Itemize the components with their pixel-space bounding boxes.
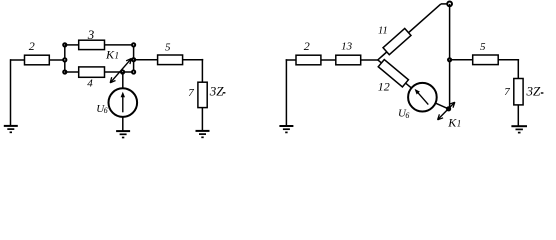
wire mid to R5b [450, 59, 473, 61]
svg-text:5: 5 [480, 41, 486, 53]
label 3 [87, 27, 95, 42]
wire R2 to node [49, 59, 65, 61]
node bus1 bottom [63, 70, 66, 73]
wire diag down [378, 60, 412, 88]
svg-text:3Z: 3Z [526, 83, 542, 98]
wire bus2 [133, 45, 135, 72]
svg-text:2: 2 [304, 39, 310, 53]
wire bus1 [64, 45, 66, 72]
switch K1b blade [438, 102, 455, 120]
node bus2 top [132, 43, 135, 46]
label 11 [378, 25, 388, 36]
wire main left [10, 59, 25, 61]
node bus1 mid [63, 58, 66, 61]
resistor R11 [383, 28, 411, 54]
wire R7 to ground [201, 108, 203, 131]
ground right of left circuit [196, 131, 210, 137]
wire top corner [441, 3, 450, 5]
wire mid to R5 [134, 59, 158, 61]
wire main 2 [286, 59, 296, 61]
resistor R5 [158, 55, 183, 65]
switch K1 blade [110, 59, 131, 83]
ground right 2 [511, 126, 527, 132]
svg-text:2: 2 [29, 39, 35, 53]
svg-text:13: 13 [341, 41, 353, 53]
wire left vertical [10, 59, 12, 126]
resistor R4 [79, 67, 105, 77]
svg-text:K: K [105, 48, 115, 62]
svg-text:K: K [447, 116, 457, 130]
svg-text:3: 3 [87, 27, 95, 42]
wire source to pivot 2 [435, 103, 448, 109]
wire diag up [378, 4, 441, 60]
label 2 [29, 39, 35, 53]
wire bottom branch right [105, 71, 134, 73]
ground under source [116, 131, 130, 137]
resistor R13 [336, 55, 361, 65]
label 7 left [188, 87, 194, 99]
svg-text:11: 11 [378, 25, 388, 36]
label 13 [341, 41, 353, 53]
label 5b [480, 41, 486, 53]
wire source to ground [122, 117, 124, 131]
svg-text:7: 7 [188, 87, 194, 99]
resistor R2b [296, 55, 321, 65]
resistor R2 [25, 55, 50, 65]
label 7b [504, 86, 510, 98]
node bus mid [448, 58, 451, 61]
wire right vertical 2 [517, 59, 519, 79]
label 2b [304, 39, 310, 53]
source U6b arrow [415, 89, 429, 105]
wire R7b to ground [517, 105, 519, 126]
svg-text:3Z: 3Z [209, 83, 225, 98]
label 3Zb [526, 83, 544, 98]
svg-text:5: 5 [165, 42, 171, 54]
source U6b circle [408, 83, 437, 112]
wire bottom branch left [65, 71, 79, 73]
node switch pivot [121, 70, 124, 73]
source U6 circle [109, 88, 138, 117]
wire left vertical 2 [285, 59, 287, 126]
label U6 [96, 103, 107, 115]
svg-text:6: 6 [405, 111, 409, 120]
node bus1 top [63, 43, 66, 46]
wire right vertical top [201, 59, 203, 82]
svg-text:4: 4 [87, 78, 93, 90]
wire top branch right [105, 44, 134, 46]
ground left 2 [279, 126, 293, 132]
wire R5 to corner [183, 59, 204, 61]
node bus2 mid [132, 58, 135, 61]
wire R5b to corner [498, 59, 519, 61]
svg-text:6: 6 [104, 106, 108, 115]
resistor R3 [79, 40, 105, 49]
label 3Z left [209, 83, 226, 98]
label K1b [447, 116, 461, 130]
wire R2b-R13 [321, 59, 336, 61]
label 12 [378, 80, 390, 94]
svg-text:12: 12 [378, 80, 390, 94]
wire top branch left [65, 44, 79, 46]
resistor R7 left [198, 82, 207, 107]
wire right bus [449, 4, 451, 111]
node switch pivot 2 [447, 107, 450, 110]
label 5 [165, 42, 171, 54]
svg-text:1: 1 [457, 119, 462, 129]
resistor R12 [378, 60, 408, 87]
node bus2 bottom [132, 70, 135, 73]
svg-text:1: 1 [115, 51, 120, 61]
node top [447, 2, 452, 7]
source U6 arrow [121, 92, 125, 113]
label K1 [105, 48, 119, 62]
label U6b [398, 107, 409, 120]
resistor R5b [473, 55, 499, 65]
ground left [4, 126, 18, 132]
label 4 [87, 78, 93, 90]
wire source to pivot [122, 72, 124, 88]
wire R13 to node [361, 59, 379, 61]
svg-text:7: 7 [504, 86, 510, 98]
resistor R7b [514, 79, 523, 105]
